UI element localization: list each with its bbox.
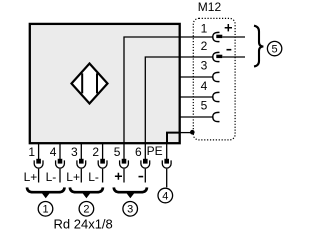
terminal 1 wire stub — [38, 169, 40, 183]
svg-text:3: 3 — [201, 58, 208, 72]
terminal PE lead — [166, 144, 168, 159]
label + terminal 5 — [115, 173, 122, 180]
wire to pin 4 — [180, 96, 213, 98]
socket contact pin 2 — [213, 52, 220, 61]
terminal 4 wire stub — [59, 169, 61, 183]
svg-text:1: 1 — [28, 145, 35, 159]
terminal 2 pin — [100, 159, 105, 164]
terminal 1 socket — [34, 160, 43, 168]
svg-text:L+: L+ — [24, 170, 38, 184]
svg-text:L-: L- — [88, 170, 99, 184]
terminal 6 socket — [141, 160, 150, 168]
terminal PE — [147, 144, 172, 187]
terminal PE wire stub — [166, 169, 168, 188]
connector pin 5 — [201, 99, 220, 122]
PE corner box on sensor body — [167, 133, 179, 144]
terminal 4 socket — [56, 160, 65, 168]
terminal 3 pin — [79, 159, 84, 164]
terminal 6 pin — [143, 159, 148, 164]
wire to pin 3 — [180, 76, 213, 78]
terminal 6 — [135, 144, 150, 183]
terminal PE socket — [162, 160, 171, 168]
wire PE corner box to connector shield — [180, 132, 193, 134]
svg-text:L+: L+ — [66, 170, 80, 184]
terminal 5 pin — [122, 159, 127, 164]
connector pin 3 — [201, 58, 220, 81]
connector pin 1 — [201, 21, 245, 41]
brace grouping pins 1-2 — [254, 26, 263, 67]
svg-text:5: 5 — [114, 145, 121, 159]
svg-text:1: 1 — [42, 204, 48, 216]
circled number 1 — [38, 202, 53, 217]
terminal 1 — [24, 144, 43, 184]
svg-text:M12: M12 — [198, 0, 222, 14]
label - terminal 6 — [139, 176, 144, 178]
socket contact pin 1 — [213, 32, 220, 41]
svg-text:L-: L- — [46, 170, 57, 184]
svg-text:4: 4 — [201, 79, 208, 93]
terminal 3 lead — [80, 144, 82, 159]
wire pin 1 out — [222, 36, 245, 38]
circled number 5 — [267, 41, 281, 55]
terminal 4 pin — [58, 159, 63, 164]
svg-text:5: 5 — [272, 44, 278, 56]
svg-text:4: 4 — [50, 145, 57, 159]
brace group 2 (terminals 3,2) — [70, 187, 103, 198]
terminal 2 socket — [98, 160, 107, 168]
terminal 2 — [88, 144, 107, 184]
M12 connector dashed outline — [193, 18, 235, 139]
svg-text:4: 4 — [162, 190, 168, 202]
terminal 2 wire stub — [102, 169, 104, 183]
connector pin 2 — [201, 39, 245, 61]
svg-text:Rd 24x1/8: Rd 24x1/8 — [54, 217, 113, 232]
terminal 5 wire stub — [123, 169, 125, 183]
mating pin 1 — [216, 35, 222, 38]
brace group 1 (terminals 1,4) — [27, 187, 65, 198]
terminal 5 — [114, 144, 129, 183]
brace group 3 (terminals 5,6) — [114, 187, 147, 198]
terminal 3 wire stub — [80, 169, 82, 183]
sensor symbol (diamond with two chords) — [72, 64, 108, 104]
wire terminal 6 to pin 2 — [145, 57, 212, 143]
svg-text:3: 3 — [71, 145, 78, 159]
socket contact pin 3 — [213, 72, 220, 81]
svg-text:3: 3 — [127, 204, 133, 216]
svg-text:1: 1 — [201, 21, 208, 35]
wire terminal 5 to pin 1 — [124, 37, 213, 143]
terminal 6 lead — [144, 144, 146, 159]
sensor body box — [30, 24, 180, 143]
terminal 3 socket — [77, 160, 86, 168]
junction dot on connector shield — [190, 130, 195, 135]
circled number 4 — [158, 188, 173, 203]
terminal 2 lead — [102, 144, 104, 159]
label - pin 2 — [227, 49, 232, 51]
terminal 5 socket — [120, 160, 129, 168]
wire to pin 5 — [180, 116, 213, 118]
mating pin 2 — [216, 55, 222, 58]
circled number 2 — [79, 202, 94, 217]
terminal 5 lead — [123, 144, 125, 159]
terminal 4 lead — [59, 144, 61, 159]
svg-text:2: 2 — [201, 39, 208, 53]
circled number 3 — [123, 202, 138, 217]
connector pin 4 — [201, 79, 220, 101]
terminal 1 lead — [38, 144, 40, 159]
label + pin 1 — [225, 24, 232, 31]
svg-text:5: 5 — [201, 99, 208, 113]
svg-text:6: 6 — [135, 145, 142, 159]
terminal PE pin — [164, 159, 169, 164]
wire pin 2 out — [222, 56, 245, 58]
svg-text:2: 2 — [92, 145, 99, 159]
svg-text:PE: PE — [147, 144, 163, 158]
svg-text:2: 2 — [83, 204, 89, 216]
terminal 6 wire stub — [144, 169, 146, 183]
terminal 1 pin — [36, 159, 41, 164]
terminal 3 — [66, 144, 85, 184]
socket contact pin 4 — [213, 92, 220, 101]
socket contact pin 5 — [213, 112, 220, 121]
terminal 4 — [46, 144, 65, 184]
